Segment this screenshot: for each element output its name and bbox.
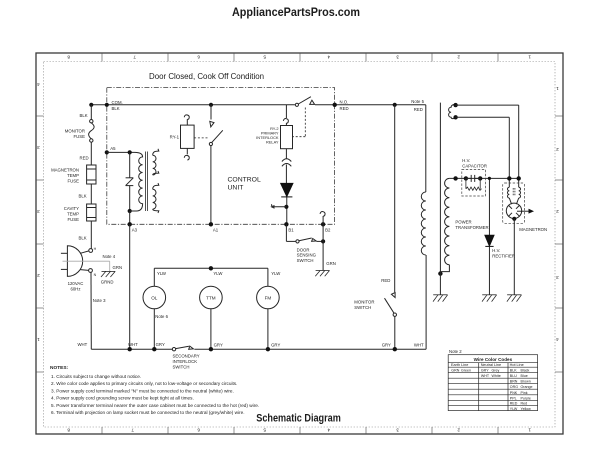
svg-text:FUSE: FUSE — [68, 179, 80, 184]
svg-text:N: N — [94, 273, 97, 277]
svg-text:8: 8 — [67, 55, 70, 60]
svg-text:RECTIFIER: RECTIFIER — [492, 253, 515, 258]
svg-text:Wire Color Codes: Wire Color Codes — [474, 357, 513, 362]
svg-text:6: 6 — [197, 55, 200, 60]
svg-text:SECONDARY: SECONDARY — [173, 354, 200, 359]
transformer T1 primary winding — [130, 152, 143, 211]
node transformer primary top — [128, 150, 132, 154]
node bottom FM — [266, 347, 270, 351]
control unit label — [228, 177, 261, 192]
svg-text:UNIT: UNIT — [228, 185, 244, 192]
svg-text:ORG: ORG — [510, 385, 518, 389]
svg-text:BLK: BLK — [80, 113, 88, 118]
label SECONDARY INTERLOCK SWITCH — [173, 354, 200, 370]
transformer T1 core — [146, 152, 148, 212]
relay RY-1 coil — [181, 115, 195, 160]
wire primary riser right — [425, 105, 427, 349]
label DOOR SENSING SWITCH — [297, 247, 317, 262]
node bottom monitor — [393, 347, 397, 351]
svg-text:Note 6: Note 6 — [155, 314, 168, 319]
svg-text:4: 4 — [327, 55, 330, 60]
svg-text:4: 4 — [37, 82, 40, 87]
motor OL — [143, 286, 166, 309]
label H.V. CAPACITOR — [462, 158, 487, 169]
svg-text:Black: Black — [521, 369, 530, 373]
svg-text:3: 3 — [396, 55, 399, 60]
node bottom TTM — [209, 347, 213, 351]
connector break under RY-2 — [282, 149, 291, 184]
terminal N — [89, 269, 93, 273]
svg-text:CAVITY: CAVITY — [64, 206, 79, 211]
svg-text:1. Circuits subject to change: 1. Circuits subject to change without no… — [51, 374, 141, 379]
svg-text:1: 1 — [37, 337, 40, 342]
wire OL to bottom bus — [153, 309, 155, 349]
label COM/BLK — [112, 100, 123, 111]
svg-text:Schematic Diagram: Schematic Diagram — [256, 413, 341, 425]
svg-text:INTERLOCK: INTERLOCK — [173, 359, 198, 364]
magnetron filament coil right — [519, 187, 521, 198]
svg-text:H.V.: H.V. — [462, 158, 470, 163]
svg-text:6: 6 — [197, 428, 200, 433]
label MONITOR SWITCH — [354, 300, 374, 311]
svg-text:SWITCH: SWITCH — [354, 305, 371, 310]
wire monitor switch column — [394, 105, 396, 292]
svg-text:BLK: BLK — [79, 236, 87, 241]
svg-text:FUSE: FUSE — [74, 134, 86, 139]
svg-text:GRN: GRN — [451, 369, 459, 373]
svg-text:4: 4 — [556, 337, 559, 342]
wire A3 down to bottom bus — [129, 224, 131, 349]
svg-text:Grey: Grey — [492, 369, 500, 373]
svg-text:Note 4: Note 4 — [103, 254, 116, 259]
svg-text:7: 7 — [133, 55, 136, 60]
node core ground junction — [438, 271, 442, 275]
node YLW at A1 line — [209, 266, 213, 270]
svg-text:3: 3 — [556, 275, 559, 280]
svg-text:Orange: Orange — [521, 385, 533, 389]
magnetron tube circle — [506, 198, 521, 219]
cavity temp fuse — [87, 204, 96, 221]
capacitor C1 — [466, 175, 480, 182]
wire FM riser — [267, 268, 269, 286]
svg-text:BLK: BLK — [79, 194, 87, 199]
svg-text:6. Terminal with projection o: 6. Terminal with projection on lamp sock… — [51, 410, 245, 415]
svg-text:Neutral Line: Neutral Line — [481, 363, 501, 367]
motor TTM — [200, 286, 223, 309]
svg-text:2: 2 — [37, 273, 40, 278]
FRAME-ZONE-GLYPHS — [37, 55, 559, 433]
svg-text:YLW: YLW — [271, 271, 281, 276]
svg-text:OL: OL — [151, 296, 158, 301]
svg-text:TTM: TTM — [206, 296, 216, 301]
ground door sensing — [315, 271, 329, 277]
svg-text:FUSE: FUSE — [68, 217, 80, 222]
svg-text:GRY: GRY — [156, 342, 165, 347]
svg-text:WHT: WHT — [481, 374, 490, 378]
svg-text:SWITCH: SWITCH — [297, 258, 314, 263]
dashed link RY-1 to contact — [194, 137, 207, 139]
svg-text:GRN: GRN — [326, 261, 336, 266]
label MAGNETRON TEMP FUSE — [51, 168, 79, 184]
svg-text:TEMP: TEMP — [67, 173, 79, 178]
svg-text:1: 1 — [528, 428, 531, 433]
node filament line 1 cross — [507, 176, 511, 180]
wire A5 to transformer — [107, 151, 135, 153]
svg-text:YLW: YLW — [157, 271, 167, 276]
svg-text:8: 8 — [67, 428, 70, 433]
node door switch right — [321, 239, 325, 243]
diode D2 H.V. rectifier — [485, 178, 494, 294]
secondary interlock switch S3 — [172, 346, 193, 351]
transformer T1 secondary upper winding — [153, 149, 159, 175]
magnetron antenna arrow — [517, 210, 533, 213]
capacitor C1 dashed box — [462, 170, 486, 197]
relay RY-2 coil — [281, 105, 293, 149]
node bottom WHT — [128, 347, 132, 351]
svg-text:2. Wire color code applies to: 2. Wire color code applies to primary ci… — [51, 381, 237, 386]
magnetron cathode dashes — [513, 188, 515, 196]
svg-text:2: 2 — [556, 147, 559, 152]
node A3 — [128, 222, 132, 226]
svg-text:5. Power transformer terminal: 5. Power transformer terminal nearer the… — [51, 403, 259, 408]
wire color codes table — [448, 355, 537, 411]
svg-text:BLK: BLK — [510, 369, 517, 373]
svg-text:5: 5 — [263, 428, 266, 433]
svg-text:B1: B1 — [288, 228, 294, 233]
svg-text:3. Power supply cord terminal: 3. Power supply cord terminal marked "N"… — [51, 388, 234, 393]
svg-text:Note 2: Note 2 — [449, 349, 462, 354]
svg-text:2: 2 — [457, 55, 460, 60]
TITLE — [149, 71, 264, 81]
monitor fuse — [89, 120, 94, 143]
node cap left — [464, 176, 468, 180]
svg-text:Brown: Brown — [521, 380, 531, 384]
motor FM — [257, 286, 280, 309]
magnetron temp fuse — [87, 165, 96, 184]
wire filament top to magnetron — [456, 105, 519, 187]
table data — [451, 369, 532, 411]
wire B2 branch to ground — [322, 224, 324, 270]
wire FM to bottom bus — [267, 309, 269, 349]
label H.V. RECTIFIER — [492, 248, 515, 258]
svg-text:YLW: YLW — [510, 407, 518, 411]
label RY-2 PRIMARY INTERLOCK RELAY — [256, 126, 279, 144]
svg-text:NOTES:: NOTES: — [50, 365, 69, 371]
AC plug P1 — [61, 246, 89, 277]
svg-text:120VAC: 120VAC — [68, 281, 84, 286]
svg-text:MAGNETRON: MAGNETRON — [519, 227, 547, 232]
label POWER TRANSFORMER — [455, 220, 488, 231]
door sensing switch S2 — [286, 238, 323, 243]
svg-text:Earth Line: Earth Line — [451, 363, 468, 367]
svg-text:A3: A3 — [132, 228, 138, 233]
connector curl above B2 — [320, 212, 325, 225]
node filament bottom — [453, 115, 457, 119]
svg-text:Note 5: Note 5 — [411, 99, 424, 104]
svg-text:RED: RED — [80, 156, 89, 161]
svg-text:RED: RED — [340, 106, 349, 111]
wire YLW bus — [154, 267, 268, 269]
SITE-HEADER — [232, 5, 360, 19]
node filament line 2 cross — [517, 176, 521, 180]
svg-text:3: 3 — [37, 209, 40, 214]
transformer T1 secondary lower winding — [153, 183, 159, 213]
svg-text:2: 2 — [556, 209, 559, 214]
svg-text:RED: RED — [510, 402, 518, 406]
svg-text:A5: A5 — [110, 146, 116, 151]
node filament top — [453, 103, 457, 107]
node test point with left hook — [284, 205, 288, 209]
label 120VAC 60Hz — [68, 281, 84, 292]
svg-text:Hot Line: Hot Line — [510, 363, 524, 367]
wire TTM to bottom bus — [210, 309, 212, 349]
svg-text:Yellow: Yellow — [521, 407, 532, 411]
BOTTOM-TITLE — [256, 413, 341, 425]
node transformer primary bottom — [128, 209, 132, 213]
node cap right — [478, 176, 482, 180]
wire HV capacitor line — [449, 177, 518, 179]
monitor switch S4 — [385, 293, 397, 350]
svg-text:RED: RED — [381, 278, 390, 283]
ground GRND (earth) — [101, 271, 115, 277]
plug ground prong wire (grey) — [63, 261, 110, 271]
svg-text:GRY: GRY — [214, 343, 223, 348]
control unit dashed enclosure — [107, 88, 335, 225]
wire OL riser — [153, 268, 155, 286]
svg-text:POWER: POWER — [455, 220, 471, 225]
NOTES block — [50, 365, 259, 415]
bleed resistor R1 — [466, 178, 482, 190]
svg-text:GRY: GRY — [271, 343, 280, 348]
svg-text:WHT: WHT — [128, 342, 138, 347]
svg-text:COM.: COM. — [112, 100, 123, 105]
svg-text:Note 3: Note 3 — [93, 298, 106, 303]
wire neutral N down to bottom bus — [90, 272, 92, 349]
svg-text:2: 2 — [457, 428, 460, 433]
svg-text:N.O.: N.O. — [340, 100, 349, 105]
svg-text:7: 7 — [131, 428, 134, 433]
svg-text:1: 1 — [556, 86, 559, 91]
node N.O. — [333, 103, 337, 107]
svg-text:60Hz: 60Hz — [70, 287, 80, 292]
node B1 — [284, 222, 288, 226]
svg-text:CONTROL: CONTROL — [228, 177, 261, 184]
magnetron filament coil left — [507, 187, 509, 198]
node RY-1 contact top — [209, 103, 213, 107]
node A5 on control box edge — [105, 150, 109, 154]
wire COM main bus — [91, 104, 426, 106]
svg-text:Blue: Blue — [521, 374, 528, 378]
ground transformer — [433, 295, 448, 302]
svg-text:BLK: BLK — [112, 106, 120, 111]
svg-text:PNK: PNK — [510, 391, 518, 395]
node B2 — [321, 222, 325, 226]
dashed mech link S1 to RY-2 — [293, 108, 306, 137]
wire left column — [90, 105, 92, 249]
svg-text:White: White — [492, 374, 501, 378]
svg-text:AppliancePartsPros.com: AppliancePartsPros.com — [232, 5, 360, 19]
relay RY-1 contact switch — [209, 105, 223, 225]
svg-text:H: H — [94, 247, 97, 251]
node bottom OL — [152, 347, 156, 351]
svg-text:H.V.: H.V. — [492, 248, 500, 253]
svg-text:3: 3 — [396, 428, 399, 433]
svg-text:GRND: GRND — [101, 280, 114, 285]
transformer T2 primary winding — [421, 192, 426, 255]
svg-text:RY-1: RY-1 — [170, 134, 180, 139]
svg-text:1: 1 — [528, 55, 531, 60]
table column headers — [451, 363, 524, 367]
wire filament bottom to magnetron — [456, 117, 510, 187]
diode D1 — [281, 183, 293, 224]
wire node to A3 — [129, 211, 131, 224]
interlock switch S1 on bus — [295, 97, 314, 107]
svg-text:GRY: GRY — [382, 342, 391, 347]
svg-text:RELAY: RELAY — [266, 139, 279, 144]
svg-text:MONITOR: MONITOR — [354, 300, 374, 305]
label MONITOR FUSE — [65, 129, 85, 140]
svg-text:TEMP: TEMP — [67, 212, 79, 217]
svg-text:B2: B2 — [325, 228, 331, 233]
svg-text:3: 3 — [37, 145, 40, 150]
svg-text:FM: FM — [265, 296, 272, 301]
svg-text:GRY: GRY — [481, 369, 489, 373]
node A1 — [209, 222, 213, 226]
svg-text:SWITCH: SWITCH — [173, 364, 190, 369]
wire B1 down to door sensing switch — [285, 224, 287, 241]
svg-text:Door Closed, Cook Off Conditio: Door Closed, Cook Off Condition — [149, 71, 264, 81]
svg-text:BRN: BRN — [510, 380, 518, 384]
ground magnetron — [507, 295, 522, 302]
svg-text:5: 5 — [263, 55, 266, 60]
transformer T2 filament winding — [449, 105, 456, 119]
node COM left — [89, 103, 93, 107]
svg-text:CAPACITOR: CAPACITOR — [462, 163, 487, 168]
label N.O. RED — [340, 100, 349, 112]
svg-text:Green: Green — [461, 369, 471, 373]
node cap line left — [453, 176, 457, 180]
svg-text:PPL: PPL — [510, 396, 517, 400]
wire core to ground — [439, 274, 441, 295]
svg-text:Red: Red — [521, 402, 528, 406]
FRAME-TICKS — [36, 53, 563, 434]
svg-text:WHT: WHT — [78, 342, 88, 347]
terminal H — [89, 249, 93, 253]
svg-text:TRANSFORMER: TRANSFORMER — [455, 225, 488, 230]
wire bottom bus WHT — [91, 348, 426, 350]
svg-text:4. Power supply cord groundin: 4. Power supply cord grounding screw mus… — [51, 396, 194, 401]
svg-text:YLW: YLW — [213, 271, 223, 276]
label CAVITY TEMP FUSE — [64, 206, 79, 222]
svg-text:A1: A1 — [213, 228, 219, 233]
svg-text:Purple: Purple — [521, 396, 531, 400]
node magnetron bottom — [512, 217, 516, 221]
svg-text:RED: RED — [414, 107, 423, 112]
varistor Z1 — [126, 152, 134, 211]
transformer T2 core line — [439, 103, 441, 274]
svg-text:MAGNETRON: MAGNETRON — [51, 168, 79, 173]
svg-text:Pink: Pink — [521, 391, 528, 395]
svg-text:BLU: BLU — [510, 374, 517, 378]
svg-text:4: 4 — [327, 428, 330, 433]
node rectifier tap — [488, 177, 491, 180]
svg-text:MONITOR: MONITOR — [65, 129, 85, 134]
svg-text:GRN: GRN — [113, 265, 123, 270]
wire magnetron to ground — [513, 219, 515, 295]
node bus RED right — [393, 103, 397, 107]
node COM at control box edge — [105, 103, 109, 107]
svg-text:WHT: WHT — [414, 342, 424, 347]
ground rectifier — [482, 295, 497, 302]
transformer T2 HV secondary winding — [440, 178, 449, 273]
magnetron V1 dashed box — [503, 183, 525, 223]
